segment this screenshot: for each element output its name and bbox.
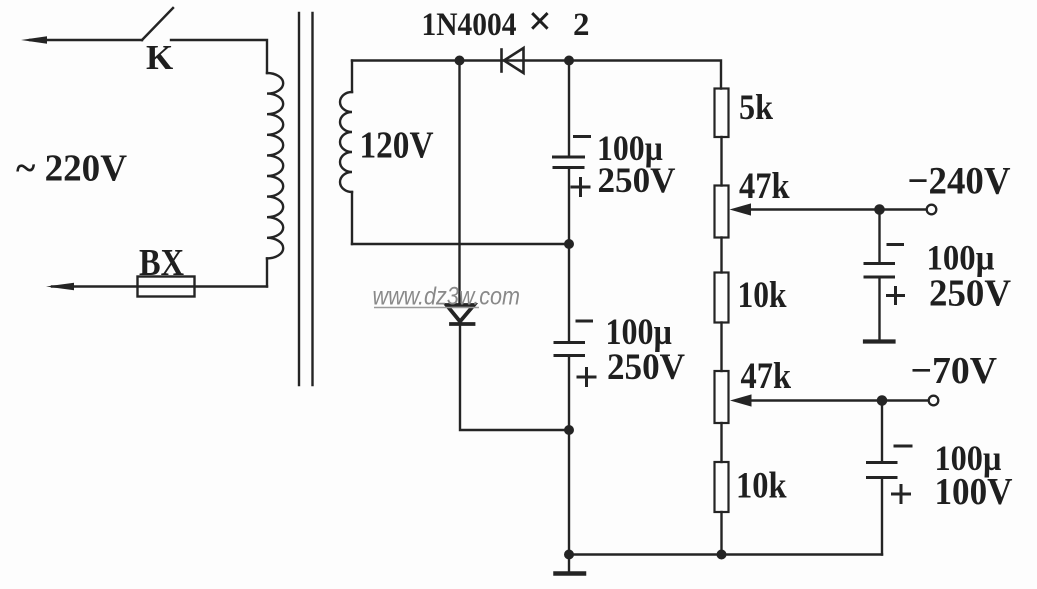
node junction -240V tap	[874, 204, 885, 215]
transformer T1 primary winding	[267, 73, 283, 258]
wire R5 to bottom rail	[720, 512, 722, 555]
arrow AC bottom	[46, 283, 74, 291]
watermark underline	[374, 307, 479, 309]
svg-text:~ 220V: ~ 220V	[16, 148, 128, 190]
svg-text:K: K	[146, 38, 173, 77]
svg-text:100V: 100V	[935, 471, 1014, 513]
wire left vertical (to D2 anode)	[458, 61, 460, 305]
svg-text:−70V: −70V	[911, 350, 998, 392]
label C1 minus	[575, 135, 590, 138]
node junction dot top-left	[455, 56, 465, 66]
wire R4 to R5	[720, 423, 722, 462]
node junction dot top-right	[564, 56, 574, 66]
label C2 minus	[577, 320, 592, 323]
svg-text:47k: 47k	[741, 356, 792, 397]
svg-text:2: 2	[573, 7, 590, 43]
wiper arrow R2 tap	[730, 203, 928, 215]
fuse BX	[138, 277, 195, 297]
svg-text:−240V: −240V	[908, 160, 1011, 203]
wire middle vertical lower	[568, 356, 570, 555]
svg-text:×: ×	[528, 0, 552, 45]
svg-text:10k: 10k	[738, 275, 787, 316]
svg-text:250V: 250V	[929, 273, 1012, 315]
wire R1 to R2	[720, 137, 722, 186]
svg-text:www.dz3w.com: www.dz3w.com	[373, 283, 521, 311]
node junction D2 branch	[564, 425, 574, 435]
svg-text:250V: 250V	[607, 347, 685, 388]
svg-text:BX: BX	[139, 242, 184, 284]
wire C4 bottom lead	[881, 478, 883, 555]
capacitor C2 100u 250V	[555, 343, 584, 356]
resistor R2 47k	[715, 186, 729, 238]
label C4 plus	[893, 486, 910, 503]
wire primary bottom lead	[266, 258, 268, 286]
svg-text:250V: 250V	[598, 160, 676, 200]
wire switch to transformer primary top	[171, 40, 267, 73]
svg-text:1N4004: 1N4004	[422, 7, 517, 43]
node junction secondary bottom	[564, 239, 574, 249]
wire R2 to R3	[720, 238, 722, 273]
label C1 plus	[572, 179, 589, 196]
wire AC top line	[30, 39, 142, 41]
wire middle vertical top	[568, 61, 570, 157]
switch K blade	[142, 8, 173, 40]
wire tap to C4	[881, 401, 883, 462]
label C3 minus	[888, 243, 903, 246]
wire D2 cathode to node	[460, 324, 569, 430]
node junction -70V tap	[877, 395, 888, 406]
wire C3 bottom lead	[878, 277, 880, 340]
transformer T1 secondary winding	[340, 92, 352, 192]
wire secondary top lead	[351, 61, 353, 93]
capacitor C3 100u 250V	[865, 264, 894, 278]
wire secondary bottom rail	[352, 243, 569, 245]
label C4 minus	[895, 445, 911, 448]
transformer core	[298, 13, 300, 385]
svg-text:10k: 10k	[736, 466, 787, 507]
terminal -70V open circle	[929, 396, 939, 406]
svg-text:100µ: 100µ	[927, 238, 995, 278]
diode D2	[447, 305, 475, 324]
wire middle vertical mid	[568, 168, 570, 343]
svg-text:5k: 5k	[739, 87, 773, 127]
resistor R3 10k	[715, 273, 729, 323]
wire secondary bottom lead	[351, 192, 353, 244]
wire bottom rail	[569, 553, 882, 555]
wire AC bottom line	[52, 285, 267, 287]
label C3 plus	[888, 288, 904, 304]
wire top rail	[352, 61, 721, 89]
ground	[556, 555, 585, 574]
resistor R5 10k	[715, 462, 729, 512]
label C2 plus	[578, 369, 595, 386]
ground bar C3	[865, 339, 894, 343]
capacitor C1 100u 250V	[554, 157, 584, 168]
wiper arrow R4 tap	[730, 394, 929, 406]
svg-text:47k: 47k	[739, 166, 790, 207]
wire R3 to R4	[720, 323, 722, 372]
resistor R1 5k	[715, 89, 729, 138]
node junction bottom-left	[564, 550, 574, 560]
capacitor C4 100u 100V	[868, 463, 897, 478]
resistor R4 47k	[715, 371, 729, 423]
node junction bottom resistor chain	[717, 550, 727, 560]
wire tap to C3	[878, 210, 880, 263]
svg-text:120V: 120V	[360, 125, 434, 167]
arrow AC top	[21, 36, 47, 44]
terminal -240V open circle	[927, 205, 937, 215]
diode D1	[502, 48, 524, 73]
